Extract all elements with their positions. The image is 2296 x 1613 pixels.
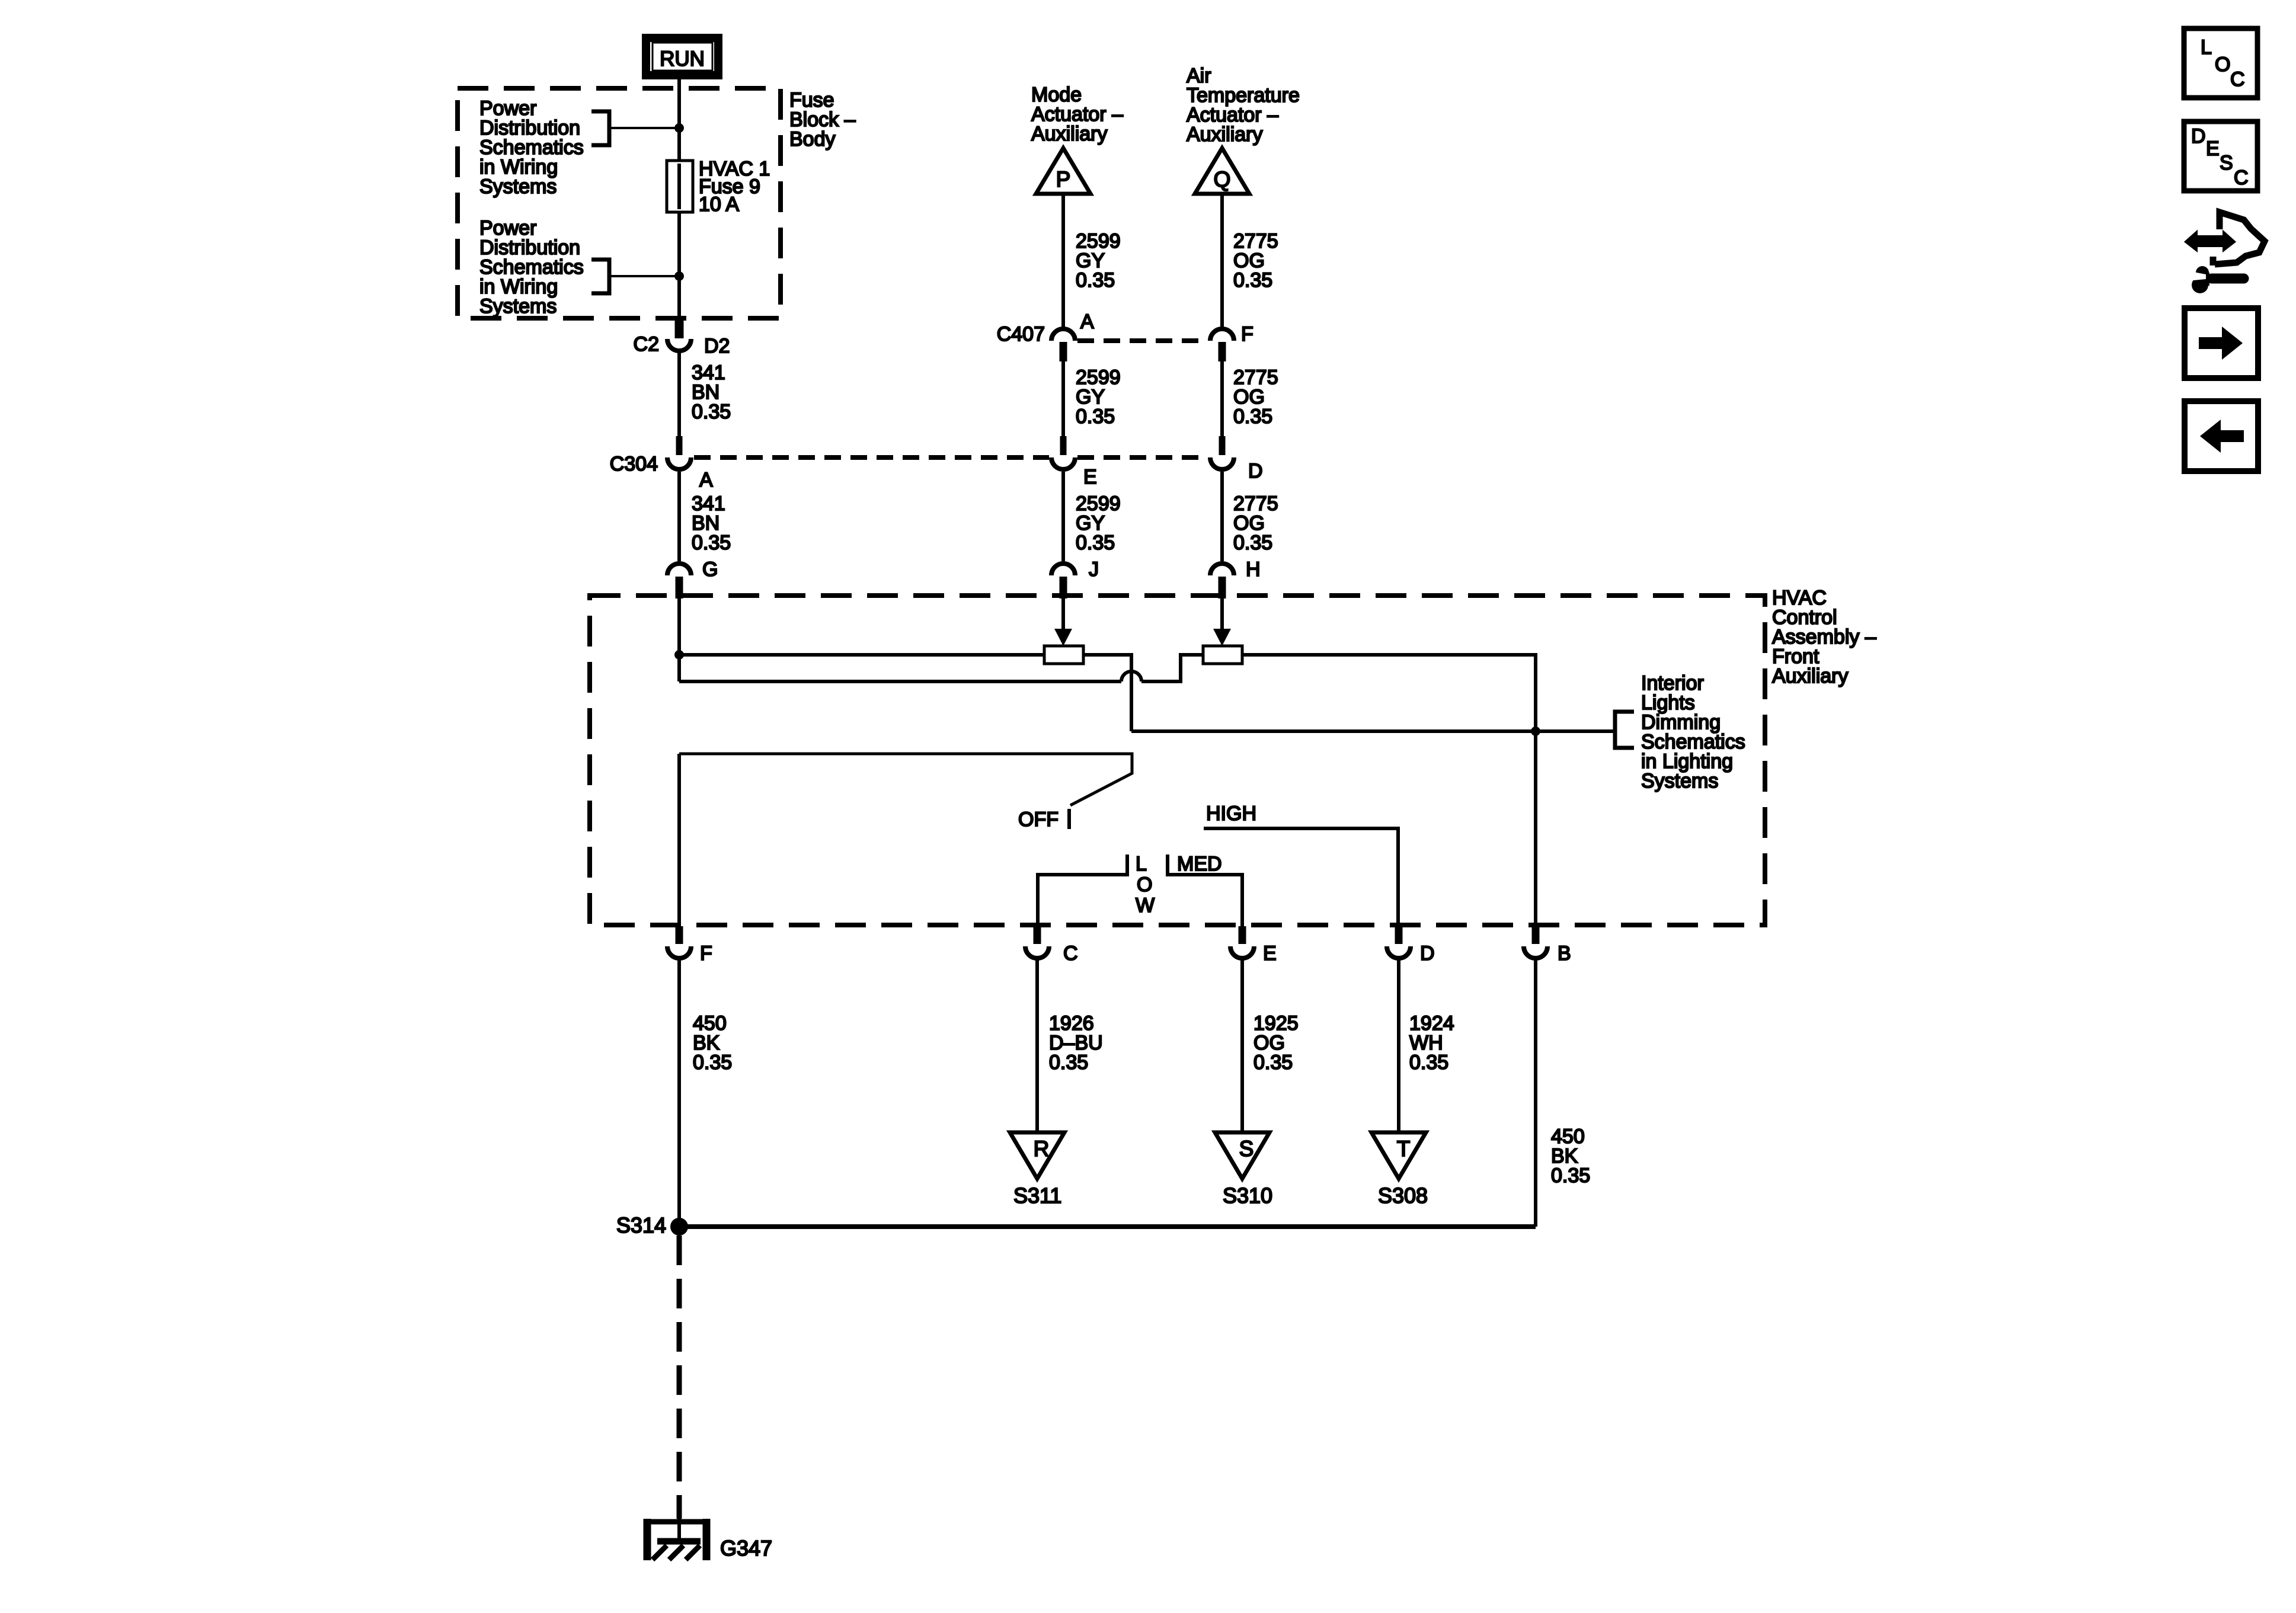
resistor - air temperature actuator feed xyxy=(1203,646,1242,664)
svg-text:Q: Q xyxy=(1214,167,1231,191)
icon box arrow right xyxy=(2185,308,2258,378)
wire 450 BK pin B to S314 xyxy=(1534,959,1537,1227)
svg-text:A: A xyxy=(699,469,713,491)
resistor - mode actuator feed xyxy=(1044,646,1083,664)
svg-text:P: P xyxy=(1056,167,1071,191)
svg-text:Systems: Systems xyxy=(479,295,557,318)
connector J cap xyxy=(1051,564,1075,575)
ground G347 symbol xyxy=(644,1519,710,1525)
connector C2/D2 cup xyxy=(667,339,691,351)
svg-text:E: E xyxy=(1083,466,1097,488)
junction dot B feed xyxy=(1531,727,1540,736)
svg-text:HIGH: HIGH xyxy=(1206,802,1256,825)
svg-text:D: D xyxy=(1248,460,1263,482)
icon box LOC xyxy=(2184,28,2257,98)
switch contact OFF tick xyxy=(1067,809,1071,829)
wire - feed to mode resistor xyxy=(679,653,1044,657)
svg-text:E: E xyxy=(2206,137,2220,160)
svg-text:0.35: 0.35 xyxy=(1076,405,1115,428)
wire - output to dimming bracket xyxy=(1131,729,1614,733)
svg-text:0.35: 0.35 xyxy=(693,1051,732,1074)
wire 2599 GY segment 1 xyxy=(1061,195,1065,328)
wire 2599 GY segment 2 xyxy=(1061,361,1065,436)
svg-text:C: C xyxy=(1063,942,1078,965)
svg-text:L: L xyxy=(2201,36,2212,59)
connector pin B stub xyxy=(1532,926,1540,944)
svg-text:Auxiliary: Auxiliary xyxy=(1187,123,1262,146)
svg-text:O: O xyxy=(1137,873,1152,896)
off-page triangle T xyxy=(1371,1132,1426,1179)
off-page triangle S xyxy=(1215,1132,1269,1179)
svg-text:0.35: 0.35 xyxy=(1551,1164,1590,1187)
connector pin C cup xyxy=(1025,946,1049,958)
svg-text:S310: S310 xyxy=(1223,1183,1272,1208)
off-page triangle Q xyxy=(1195,148,1249,194)
connector H cap xyxy=(1210,564,1234,575)
connector C304-E cup xyxy=(1051,457,1075,469)
svg-text:Systems: Systems xyxy=(479,175,557,198)
wire - MED contact to pin E xyxy=(1168,854,1242,928)
connector C304-D cup xyxy=(1210,457,1234,469)
connector pin F cup xyxy=(667,946,691,958)
svg-text:C2: C2 xyxy=(634,333,659,356)
connector C304-E stub xyxy=(1060,436,1067,455)
svg-text:O: O xyxy=(2215,53,2230,76)
connector C304-A stub xyxy=(676,436,683,455)
svg-text:C: C xyxy=(2234,167,2249,189)
svg-text:0.35: 0.35 xyxy=(1049,1051,1088,1074)
svg-text:S311: S311 xyxy=(1013,1183,1061,1208)
wire 341 BN segment 1 xyxy=(677,351,681,436)
junction dot 1 xyxy=(674,123,684,133)
connector C304-A cup xyxy=(667,457,691,469)
splice S314 dot xyxy=(670,1218,688,1236)
wire J to resistor arrow xyxy=(1061,599,1065,629)
connector pin D cup xyxy=(1387,946,1411,958)
svg-text:G347: G347 xyxy=(720,1536,772,1560)
connector C407-F cap xyxy=(1210,329,1234,341)
arrow into mode resistor xyxy=(1054,629,1072,646)
wire 450 BK pin F to S314 xyxy=(677,959,681,1227)
svg-text:G: G xyxy=(702,558,718,581)
svg-text:W: W xyxy=(1136,894,1155,917)
wire 2775 OG segment 2 xyxy=(1220,361,1224,436)
ignition switch position box RUN xyxy=(646,38,718,75)
svg-text:0.35: 0.35 xyxy=(1076,269,1115,292)
svg-text:S314: S314 xyxy=(616,1213,666,1237)
fuse HVAC 1 Fuse 9 10A xyxy=(667,161,693,212)
svg-text:10 A: 10 A xyxy=(699,193,739,216)
connector J stub xyxy=(1060,577,1067,599)
fuse block - body dashed outline xyxy=(458,88,781,318)
wire - LOW contact to pin C xyxy=(1038,854,1127,928)
svg-text:L: L xyxy=(1136,853,1147,875)
junction dot on G feed xyxy=(674,650,684,660)
svg-text:S: S xyxy=(1239,1137,1254,1161)
svg-text:Systems: Systems xyxy=(1641,770,1718,792)
bracket - interior lights dimming callout xyxy=(1615,712,1634,748)
dashed wire S314 to G347 xyxy=(677,1236,682,1519)
connector pin E cup xyxy=(1230,946,1254,958)
svg-text:C407: C407 xyxy=(997,323,1045,345)
svg-text:D: D xyxy=(1420,942,1435,965)
svg-text:J: J xyxy=(1089,558,1099,581)
connector C407-A stub xyxy=(1060,342,1067,361)
wire - mode resistor output drops xyxy=(1083,655,1131,731)
wire - air temp resistor output drops xyxy=(1242,655,1536,731)
svg-text:D: D xyxy=(2191,125,2206,148)
wire 2775 OG segment 3 xyxy=(1220,472,1224,561)
svg-text:0.35: 0.35 xyxy=(1233,532,1272,554)
connector C407-A cap xyxy=(1051,329,1075,341)
wire - bus down to lower feed xyxy=(677,655,681,681)
svg-text:RUN: RUN xyxy=(660,47,705,71)
svg-text:0.35: 0.35 xyxy=(1233,405,1272,428)
wire - lower feed rises into air temp resistor xyxy=(1141,655,1203,681)
svg-text:A: A xyxy=(1080,311,1094,333)
svg-text:0.35: 0.35 xyxy=(1233,269,1272,292)
dotted connector line C407 A-F xyxy=(1077,338,1208,343)
svg-text:Auxiliary: Auxiliary xyxy=(1031,123,1107,145)
svg-text:0.35: 0.35 xyxy=(692,401,731,423)
svg-text:E: E xyxy=(1263,942,1277,965)
icon box arrow left xyxy=(2185,401,2258,471)
svg-text:Body: Body xyxy=(789,128,836,151)
svg-text:S: S xyxy=(2220,152,2233,174)
dotted connector line C304 A-E xyxy=(694,455,1049,460)
HVAC control assembly dashed outline xyxy=(590,596,1765,925)
bracket - power distribution feed 2 xyxy=(591,260,609,293)
wire H to resistor arrow xyxy=(1220,599,1224,629)
svg-text:F: F xyxy=(700,942,712,965)
connector G stub xyxy=(676,577,683,599)
svg-text:D2: D2 xyxy=(704,335,730,357)
svg-text:S308: S308 xyxy=(1378,1183,1428,1208)
arrow into air temp resistor xyxy=(1213,629,1231,646)
wire - feed 2 to bus xyxy=(611,275,679,277)
connector pin F stub xyxy=(676,926,683,944)
svg-text:0.35: 0.35 xyxy=(1409,1051,1448,1074)
junction dot 2 xyxy=(674,271,684,281)
svg-text:C: C xyxy=(2230,68,2245,91)
dotted connector line C304 E-D xyxy=(1077,455,1208,460)
connector C2/D2 stub xyxy=(675,318,684,338)
svg-text:R: R xyxy=(1034,1137,1050,1161)
connector pin E stub xyxy=(1239,926,1246,944)
wire - junction down to pin B xyxy=(1534,731,1537,928)
svg-text:0.35: 0.35 xyxy=(1076,532,1115,554)
wire - feed 1 to bus xyxy=(611,127,679,129)
wire hop over crossing xyxy=(1121,671,1141,681)
svg-text:C304: C304 xyxy=(610,453,658,475)
wire 2775 OG segment 1 xyxy=(1220,195,1224,328)
wire 341 BN segment 2 xyxy=(677,472,681,561)
connector H stub xyxy=(1219,577,1226,599)
off-page triangle P xyxy=(1036,148,1091,194)
icon box DESC xyxy=(2184,121,2257,191)
wire - lower feed toward air temp resistor xyxy=(679,680,1121,683)
svg-text:0.35: 0.35 xyxy=(1253,1051,1293,1074)
wire G to junction xyxy=(677,599,681,655)
connector pin D stub xyxy=(1395,926,1403,944)
svg-text:MED: MED xyxy=(1177,853,1222,875)
wire - S314 ground bus xyxy=(679,1224,1536,1229)
connector C407-F stub xyxy=(1219,342,1226,361)
svg-text:B: B xyxy=(1558,942,1571,965)
svg-text:OFF: OFF xyxy=(1018,808,1059,831)
switch arm feed and wiper OFF xyxy=(679,754,1132,805)
connector pin C stub xyxy=(1034,926,1041,944)
svg-text:0.35: 0.35 xyxy=(692,532,731,554)
icon schematic reference (arrow and wrench) xyxy=(2186,232,2234,250)
wire - switch common to pin F xyxy=(677,754,681,928)
svg-text:T: T xyxy=(1397,1137,1411,1161)
wire - HIGH contact to pin D xyxy=(1204,828,1398,928)
svg-text:H: H xyxy=(1246,558,1261,581)
wire 2599 GY segment 3 xyxy=(1061,472,1065,561)
svg-text:Auxiliary: Auxiliary xyxy=(1772,665,1848,687)
wire 1924 WH xyxy=(1397,959,1400,1132)
connector G cap xyxy=(667,564,691,575)
wire 1925 OG xyxy=(1240,959,1244,1132)
off-page triangle R xyxy=(1010,1132,1064,1179)
wire 1926 D-BU xyxy=(1035,959,1039,1132)
wire - ignition feed from RUN into fuse block xyxy=(677,75,681,321)
bracket - power distribution feed 1 xyxy=(591,111,609,145)
connector C304-D stub xyxy=(1219,436,1226,455)
svg-text:F: F xyxy=(1241,323,1253,345)
connector pin B cup xyxy=(1524,946,1547,958)
